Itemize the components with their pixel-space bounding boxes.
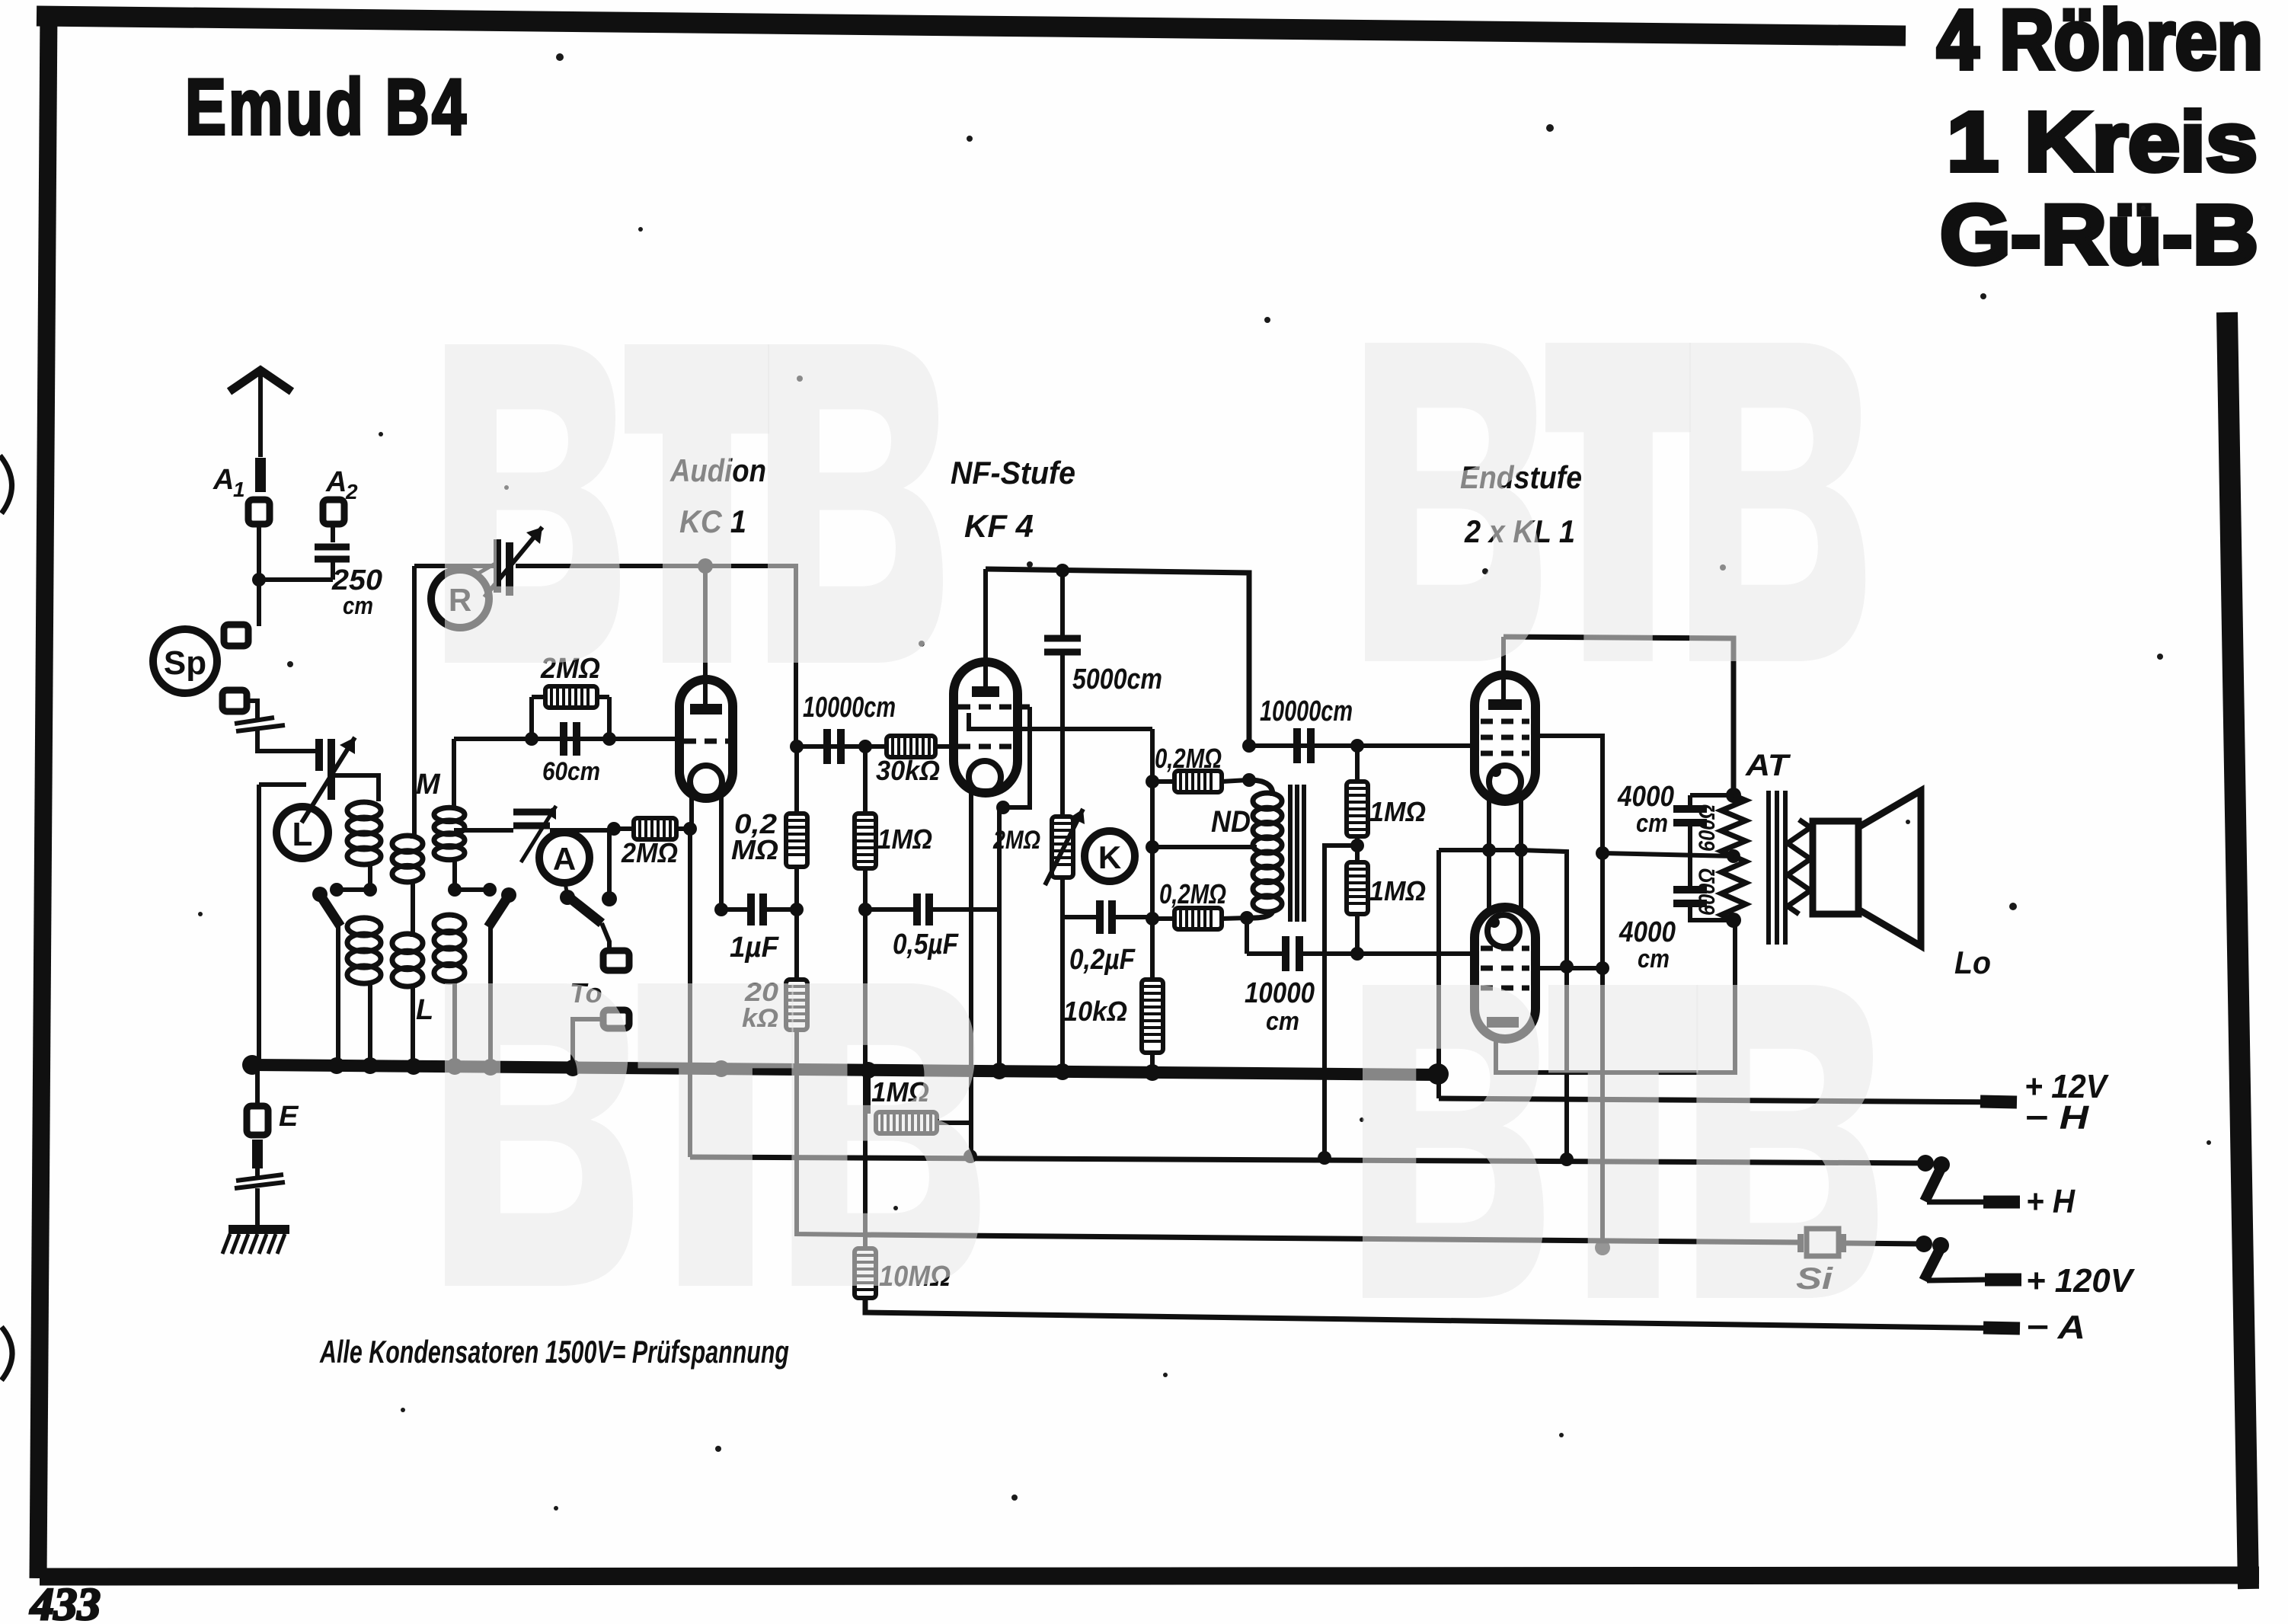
wire anode top rail [1503, 637, 1734, 795]
svg-text:1MΩ: 1MΩ [1369, 796, 1426, 827]
wire bias tap down [1325, 846, 1357, 1158]
capacitor 1uF [714, 903, 728, 916]
wire KF4 grid2 rail [1007, 727, 1152, 731]
resistor 1MOhm upper output [1350, 739, 1364, 753]
transformer AT core [1766, 791, 1771, 945]
potentiometer 2MOhm regen KF4 [1052, 817, 1073, 878]
coil L lower section [434, 915, 465, 933]
svg-text:10000cm: 10000cm [1260, 695, 1353, 727]
tube KC1 filament leads [689, 795, 694, 829]
wire 1M line to 120V rail [863, 910, 868, 1235]
resistor 0.2MOhm upper [1152, 779, 1174, 784]
svg-text:Sp: Sp [164, 644, 206, 682]
resistor 20kOhm [794, 910, 799, 980]
svg-text:10000cm: 10000cm [803, 692, 896, 724]
ground symbol [228, 1225, 289, 1234]
regen cap arrow [484, 527, 542, 597]
tube KC1 envelope [679, 679, 733, 798]
wire earth branch [255, 1065, 260, 1106]
svg-text:0,2µF: 0,2µF [1069, 944, 1136, 976]
svg-text:433: 433 [30, 1579, 101, 1624]
wire KC1 grid row [454, 737, 679, 741]
svg-text:1MΩ: 1MΩ [1369, 875, 1426, 906]
capacitor 0.5uF [858, 903, 872, 916]
svg-text:1µF: 1µF [730, 932, 780, 964]
wire regen line vertical [412, 566, 417, 836]
tube KL1 upper anode plate [1488, 699, 1522, 710]
antenna symbol [229, 370, 292, 392]
terminal socket upper (Sp) [224, 625, 248, 646]
tube KL1 upper envelope [1475, 675, 1535, 801]
terminal To [603, 1010, 629, 1028]
capacitor 4000cm upper [1688, 795, 1692, 809]
svg-text:A: A [325, 466, 347, 498]
wire -A line [865, 1298, 2017, 1328]
wire screen rail to AT centre [1603, 853, 1734, 856]
tube KL1 upper filament leads [1487, 795, 1491, 911]
switch +120V [1916, 1236, 1932, 1252]
page border frame top [37, 16, 1906, 36]
capacitor 0.2uF [1060, 878, 1065, 917]
tube KL1 lower envelope [1475, 907, 1535, 1039]
wire regen top [414, 564, 494, 568]
node after cap [858, 740, 872, 753]
svg-text:1: 1 [233, 478, 245, 501]
svg-text:10000: 10000 [1245, 977, 1315, 1009]
tube KF4 screen box wire [1003, 707, 1030, 807]
choke ND winding [1249, 780, 1273, 794]
node screen to supply [1596, 846, 1609, 860]
capacitor regen (variable) [494, 539, 501, 593]
tube KL1 lower anode plate [1487, 1017, 1519, 1028]
svg-text:K: K [1098, 839, 1121, 875]
terminal +12V [1980, 1101, 2017, 1102]
capacitor 60cm grid [560, 722, 567, 756]
svg-text:1MΩ: 1MΩ [877, 823, 932, 855]
tube KF4 inner grid bracket [969, 713, 1007, 729]
svg-text:KF 4: KF 4 [964, 508, 1034, 544]
wire left shunt vertical [257, 785, 261, 1060]
svg-text:A: A [213, 464, 234, 496]
svg-text:0,2MΩ: 0,2MΩ [1159, 878, 1226, 910]
svg-text:+ H: + H [2026, 1183, 2075, 1220]
svg-text:2: 2 [345, 480, 358, 504]
wire tuning cap to coil top [331, 775, 379, 801]
node bus right end [1427, 1063, 1449, 1085]
wire grid tank vertical [452, 739, 456, 808]
wire ND tap [1152, 845, 1257, 849]
tube KF4 cathode loop [969, 761, 1001, 793]
svg-text:ND: ND [1211, 805, 1251, 839]
trimmer capacitor 60cm variable [454, 828, 513, 833]
tube KF4 filament leads [969, 791, 973, 1156]
tube KF4 anode plate [972, 686, 999, 697]
tube KL1 upper anode lead [1501, 637, 1506, 701]
svg-text:AT: AT [1745, 749, 1791, 782]
page border frame right bar [2227, 312, 2248, 1589]
wire from lower terminal to tuning cap [247, 701, 257, 719]
capacitor earth (scribbled) [236, 1175, 283, 1181]
wire tap to switch [337, 887, 370, 892]
plug pin A1 [255, 458, 266, 492]
svg-text:0,5µF: 0,5µF [893, 929, 960, 961]
svg-text:4000: 4000 [1619, 916, 1676, 948]
wire KL1 upper screen tap [1535, 736, 1603, 1248]
variable tuning capacitor [315, 739, 323, 771]
svg-text:L: L [416, 994, 433, 1026]
page border frame bottom [40, 1575, 2259, 1577]
wire Si to switch [1846, 1243, 1924, 1244]
wire KL1 lower screen tap [1535, 966, 1603, 970]
capacitor 4000cm lower [1688, 856, 1692, 890]
switch wave-change right [501, 887, 516, 903]
capacitor 10000cm lower [1245, 918, 1249, 954]
node coil1 tap [363, 883, 377, 897]
tube KF4 control grid dashes [958, 744, 1013, 750]
svg-text:0,2MΩ: 0,2MΩ [1155, 743, 1222, 774]
capacitor 10000cm coupling 1 [823, 729, 831, 764]
resistor 0.2MOhm lower [1152, 916, 1174, 921]
wire regen cap to anode node [516, 564, 705, 568]
tuning cap arrow [302, 737, 355, 823]
svg-text:4000: 4000 [1617, 781, 1674, 813]
node 5000cm tap [1056, 564, 1069, 577]
svg-text:M: M [416, 769, 441, 801]
resistor 1MOhm lower output [1347, 862, 1368, 914]
svg-text:Alle Kondensatoren 1500V= Prüf: Alle Kondensatoren 1500V= Prüfspannung [319, 1334, 789, 1370]
plug pin E [252, 1140, 263, 1168]
wire pot branch to bus [1060, 917, 1065, 1073]
ground bus (chassis) [252, 1065, 1438, 1075]
svg-text:60cm: 60cm [542, 757, 600, 786]
coil antenna upper section [347, 802, 381, 819]
svg-text:1 Kreis: 1 Kreis [1947, 95, 2258, 189]
watermark BTB upper right [1365, 343, 1865, 661]
circle A knob [539, 833, 590, 883]
wire filament return to -H [1436, 850, 1441, 1098]
wire To to bus [573, 1019, 603, 1060]
tube KC1 anode plate [690, 704, 722, 714]
resistor 1MOhm KF4 grid [863, 746, 868, 814]
node AT bottom [1726, 913, 1741, 928]
resistor 600 Ohm lower (primary half) [1721, 856, 1746, 920]
switch A [565, 883, 567, 896]
node ND bottom [1240, 911, 1254, 925]
coil M lower section [392, 934, 423, 953]
svg-text:30kΩ: 30kΩ [876, 755, 940, 786]
wire coupling row [797, 744, 954, 749]
svg-text:cm: cm [343, 592, 373, 619]
node anode KC1 [790, 740, 804, 753]
tube KL1 lower anode lead [1496, 920, 1735, 1073]
circle L knob [276, 807, 328, 858]
socket A1 [248, 500, 270, 524]
circle K knob [1085, 831, 1135, 881]
svg-text:− H: − H [2024, 1099, 2089, 1136]
tube KC1 anode lead [703, 566, 708, 705]
wire A2 to cap [331, 524, 335, 542]
switch wave-change left [312, 887, 328, 902]
svg-text:4 Röhren: 4 Röhren [1937, 0, 2263, 87]
wire +120V line [865, 1235, 1801, 1242]
terminal +120V [1985, 1274, 2021, 1287]
svg-text:cm: cm [1636, 809, 1668, 838]
coil antenna lower section [347, 918, 381, 935]
wire KF4 anode rail [986, 569, 1249, 746]
tube KF4 screen dashes [958, 705, 1030, 710]
tube KC1 grid dashes [684, 739, 728, 744]
watermark BTB upper left [445, 344, 943, 663]
tube KF4 anode lead [983, 569, 988, 688]
bus junction dots [242, 1055, 262, 1075]
circle R regen knob [431, 570, 489, 628]
svg-text:MΩ: MΩ [731, 834, 778, 865]
svg-text:L: L [292, 816, 313, 853]
coil M upper section [392, 836, 423, 852]
svg-text:G-Rü-B: G-Rü-B [1940, 188, 2258, 282]
loudspeaker Lo [1813, 821, 1858, 914]
fuse Si [1807, 1229, 1839, 1256]
tube KL1 upper filament loop [1489, 766, 1521, 798]
socket A2 [323, 500, 344, 524]
resistor 10kOhm [1150, 729, 1155, 980]
page border frame left [38, 9, 49, 1578]
node AT top [1726, 788, 1741, 803]
tube KL1 lower grid dashes [1481, 946, 1529, 951]
svg-text:− A: − A [2026, 1309, 2085, 1346]
node regen-anode [698, 558, 713, 574]
terminal -A [1983, 1328, 2020, 1328]
resistor 1MOhm bias [866, 1070, 871, 1114]
resistor 30kOhm [887, 736, 935, 757]
svg-text:E: E [279, 1101, 299, 1133]
svg-text:cm: cm [1638, 945, 1670, 973]
resistor 2MOhm grid leak [529, 697, 534, 739]
capacitor 10000cm upper output [1249, 743, 1475, 748]
scan speckles [556, 53, 564, 61]
capacitor 250cm [315, 544, 350, 551]
svg-text:NF-Stufe: NF-Stufe [951, 455, 1075, 491]
series antenna capacitor (scribbled) [235, 718, 274, 724]
node coil3 tap [448, 883, 462, 897]
resistor 2MOhm cathode [614, 826, 634, 831]
tube KC1 cathode filament loop [690, 766, 722, 798]
resistor 600 Ohm upper (primary half) [1721, 795, 1746, 856]
wire +12V -H line [1439, 1098, 2011, 1102]
svg-text:+ 120V: + 120V [2026, 1262, 2136, 1300]
node between 1MOhms [1355, 836, 1360, 862]
socket switch A [603, 951, 629, 970]
wire A1 down [257, 524, 261, 626]
svg-text:Lo: Lo [1954, 945, 1991, 980]
terminal socket lower (Sp) [222, 690, 247, 711]
choke ND core [1288, 785, 1293, 922]
socket E [247, 1106, 268, 1135]
tube KF4 envelope [954, 662, 1018, 793]
resistor 10MOhm [863, 1235, 868, 1248]
svg-text:2MΩ: 2MΩ [992, 826, 1040, 855]
node A1-A2 junction [252, 573, 266, 587]
wire +H line [688, 829, 692, 1157]
terminal +H [1983, 1196, 2020, 1209]
coil L upper section [434, 807, 465, 821]
node ND top [1242, 773, 1256, 787]
wire filament rail [1439, 848, 1523, 852]
tube KL1 upper grid dashes [1481, 719, 1529, 724]
svg-text:5000cm: 5000cm [1072, 663, 1162, 695]
watermark BTB lower right [1363, 985, 1877, 1298]
circle Sp (coil symbol) [153, 629, 217, 693]
svg-text:2MΩ: 2MΩ [621, 837, 678, 868]
switch +H [1917, 1155, 1934, 1172]
svg-text:cm: cm [1266, 1007, 1299, 1036]
wire coil mid [368, 864, 372, 890]
svg-text:10kΩ: 10kΩ [1063, 996, 1127, 1027]
svg-text:A: A [553, 841, 576, 877]
watermark BTB lower left [445, 983, 980, 1286]
node KC1 cathode left [683, 822, 697, 836]
transformer AT secondary [1788, 820, 1810, 914]
wire 20kOhm down to 120V rail [797, 1030, 865, 1235]
svg-text:Emud B4: Emud B4 [185, 63, 468, 152]
capacitor 5000cm [1060, 571, 1065, 635]
resistor 0.2MOhm anode load KC1 [794, 746, 799, 814]
tube KL1 lower filament loop [1488, 915, 1519, 947]
